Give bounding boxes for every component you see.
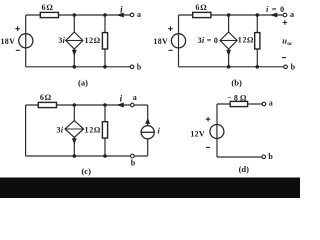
terminal b (d) xyxy=(262,152,273,161)
svg-text:b: b xyxy=(268,152,273,161)
wire: (a) 12Ω connections xyxy=(104,15,106,67)
svg-text:−8Ω: −8Ω xyxy=(227,93,249,102)
node: (b) bottom junction 2 xyxy=(255,65,259,69)
node: (c) top junction 2 xyxy=(103,103,107,107)
terminal a (a) xyxy=(130,10,141,19)
svg-text:(d): (d) xyxy=(239,164,250,174)
wire: (a) left branch vertical xyxy=(25,15,27,67)
svg-text:b: b xyxy=(291,62,296,71)
svg-text:6Ω: 6Ω xyxy=(42,3,54,12)
node: (a) bottom junction 1 xyxy=(73,65,77,69)
terminal b (b) xyxy=(284,62,296,71)
svg-text:(c): (c) xyxy=(81,166,91,176)
svg-text:12Ω: 12Ω xyxy=(238,36,254,45)
dependent source 3i (a) xyxy=(58,32,83,55)
svg-text:a: a xyxy=(269,99,273,108)
terminal b (c) xyxy=(131,154,136,167)
node: (a) top junction 1 xyxy=(73,13,77,17)
wire: (d) top rail xyxy=(217,103,262,105)
resistor 6Ω (a) xyxy=(40,3,58,18)
wire: (c) diamond top connection xyxy=(73,105,75,121)
svg-text:a: a xyxy=(133,93,137,102)
resistor -8Ω (d) xyxy=(227,93,249,106)
wire: (c) left branch vertical xyxy=(25,105,27,156)
resistor 12Ω (a) xyxy=(84,33,107,49)
wire: (a) top rail xyxy=(26,14,131,16)
resistor 12Ω (b) xyxy=(238,33,260,49)
svg-text:a: a xyxy=(290,10,294,19)
wire: (c) top rail right of terminal xyxy=(134,104,148,106)
wire: (a) diamond top connection xyxy=(73,15,75,32)
dependent source 3i=0 (b) xyxy=(198,32,238,55)
current arrow i (c) xyxy=(118,94,124,107)
wire: (b) diamond top connection xyxy=(228,15,230,32)
node: (c) bottom junction 1 xyxy=(73,154,77,158)
current arrow i=0 (b) xyxy=(266,5,285,17)
current arrow i (a) xyxy=(118,4,124,16)
wire: (a) diamond bottom connection xyxy=(73,49,75,67)
resistor 12Ω (c) xyxy=(85,122,108,138)
svg-text:(b): (b) xyxy=(231,77,242,87)
wire: (c) diamond bottom connection xyxy=(73,138,75,157)
svg-text:6Ω: 6Ω xyxy=(195,3,207,12)
terminal a (c) xyxy=(131,93,137,107)
svg-text:12Ω: 12Ω xyxy=(85,125,101,134)
voltage source 18V (a) xyxy=(1,26,33,50)
wire: (b) 12Ω connections xyxy=(256,15,258,67)
wire: (c) top rail xyxy=(26,104,131,106)
voltage source 18V (b) xyxy=(153,26,185,50)
resistor 6Ω (b) xyxy=(193,3,211,18)
wire: (b) diamond bottom connection xyxy=(228,49,230,67)
node: (a) top junction 2 xyxy=(103,13,107,17)
node: (c) bottom junction 2 xyxy=(103,154,107,158)
dependent source 3i (c) xyxy=(56,121,83,144)
svg-text:3i = 0: 3i = 0 xyxy=(198,36,219,45)
wire: (c) 12Ω connections xyxy=(104,105,106,156)
node: (b) top junction 2 xyxy=(255,13,259,17)
svg-text:12V: 12V xyxy=(190,130,205,139)
terminal b (a) xyxy=(130,63,142,72)
node: (a) bottom junction 2 xyxy=(103,65,107,69)
svg-text:18V: 18V xyxy=(1,37,16,46)
terminal a (d) xyxy=(262,99,273,108)
svg-text:i = 0: i = 0 xyxy=(266,5,285,14)
svg-text:oc: oc xyxy=(287,41,293,47)
wire: (b) top rail xyxy=(179,14,284,16)
wire: (d) left branch vertical xyxy=(216,104,218,157)
node: (c) top junction 1 xyxy=(73,103,77,107)
wire: (c) bottom rail xyxy=(26,155,148,157)
svg-text:3i: 3i xyxy=(56,125,63,134)
svg-text:12Ω: 12Ω xyxy=(84,36,100,45)
svg-text:(a): (a) xyxy=(78,77,88,87)
svg-text:18V: 18V xyxy=(153,37,168,46)
svg-text:b: b xyxy=(137,63,142,72)
wire: (a) bottom rail xyxy=(26,66,130,68)
resistor 6Ω (c) xyxy=(38,93,56,108)
voltage source 12V (d) xyxy=(190,117,224,147)
bottom black bar xyxy=(0,178,300,199)
label + uoc - (b) xyxy=(282,20,293,57)
wire: (d) bottom rail xyxy=(217,156,262,158)
current source i (c) xyxy=(141,119,160,139)
wire: (c) right branch vertical xyxy=(147,105,149,156)
node: (b) top junction 1 xyxy=(227,13,231,17)
terminal a (b) xyxy=(283,10,294,19)
node: (b) bottom junction 1 xyxy=(227,65,231,69)
svg-text:3i: 3i xyxy=(58,36,65,45)
wire: (b) bottom rail xyxy=(179,66,284,68)
svg-text:6Ω: 6Ω xyxy=(40,93,52,102)
svg-text:b: b xyxy=(131,158,136,167)
svg-text:a: a xyxy=(137,10,141,19)
wire: (b) left branch vertical xyxy=(178,15,180,67)
